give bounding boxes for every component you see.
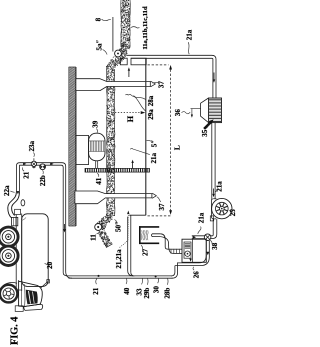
ceiling damper box left	[120, 58, 127, 65]
svg-text:50″: 50″	[114, 221, 122, 232]
bottom return pipe 21	[69, 276, 173, 278]
heat exchanger 35	[201, 98, 222, 123]
svg-text:8: 8	[95, 17, 103, 21]
pump discharge piping	[175, 241, 209, 266]
svg-text:41: 41	[95, 177, 103, 185]
label 21a chamber	[130, 148, 158, 163]
svg-text:21: 21	[92, 287, 100, 295]
right pipe lower section	[212, 123, 215, 200]
junction dot right	[155, 275, 157, 277]
label 5''	[147, 140, 159, 148]
svg-text:36: 36	[174, 109, 182, 117]
flow marker a	[23, 163, 26, 166]
pipe corner to bottom return	[171, 263, 178, 278]
label 50''	[114, 220, 122, 233]
svg-text:23a: 23a	[28, 140, 36, 151]
conveyor band upper section (11a-11d)	[121, 0, 131, 47]
svg-text:28a: 28a	[147, 95, 155, 106]
label 21a pump line	[198, 212, 206, 234]
air inlet arrow	[203, 119, 213, 129]
truck chassis	[15, 209, 22, 291]
label 21 supply	[22, 167, 30, 178]
svg-text:11a,11b,11c,11d: 11a,11b,11c,11d	[142, 6, 149, 50]
label 25	[229, 209, 237, 217]
svg-text:22b: 22b	[39, 175, 47, 186]
dimension line L	[148, 65, 173, 215]
svg-text:29a: 29a	[147, 109, 155, 120]
label 29b	[143, 279, 151, 299]
conveyor band vertical section	[106, 66, 115, 216]
hose to truck tank	[8, 192, 20, 218]
flow arrow down supply	[63, 224, 65, 233]
label 23a	[28, 140, 36, 156]
label 5a	[95, 39, 107, 54]
label 20	[45, 261, 54, 269]
conveyor band bend at top pulley	[106, 44, 130, 68]
tank outlet pipe	[151, 234, 173, 254]
truck tank body 20	[22, 214, 49, 287]
label 22b	[39, 170, 47, 186]
valve 38	[204, 234, 211, 241]
svg-text:26: 26	[192, 271, 200, 279]
label 21 bottom	[92, 279, 100, 295]
front fender	[3, 283, 17, 286]
flow marker b	[50, 163, 53, 166]
ceiling damper box right	[131, 58, 146, 65]
flow marker pump outlet	[189, 259, 192, 262]
svg-text:28b: 28b	[164, 288, 172, 299]
upper hot-air duct nozzle	[76, 79, 155, 91]
label H	[126, 115, 135, 122]
label 41	[95, 173, 103, 184]
top recirculation pipe 21a	[127, 55, 217, 98]
svg-text:40: 40	[123, 287, 131, 295]
label 40	[123, 279, 131, 295]
truck cab	[19, 281, 43, 307]
label L	[172, 145, 181, 150]
truck rear wheel 236.8	[0, 227, 18, 246]
svg-text:37: 37	[158, 81, 166, 89]
svg-text:27: 27	[142, 248, 150, 256]
label 30	[153, 279, 161, 294]
svg-text:5a″: 5a″	[95, 39, 103, 50]
svg-text:21a: 21a	[216, 181, 224, 192]
label 21a fan inlet	[215, 181, 223, 192]
truck rear wheel 255.8	[0, 246, 18, 265]
label 21a top	[186, 29, 194, 54]
conveyor band lower discharge section 50	[96, 214, 113, 248]
hatched wall	[68, 55, 77, 245]
valve 22b	[40, 164, 46, 170]
chamber right wall	[145, 58, 147, 215]
svg-text:L: L	[172, 145, 181, 150]
label 11 pulley	[89, 232, 100, 241]
svg-text:35: 35	[201, 129, 209, 137]
svg-text:29b: 29b	[143, 288, 151, 299]
cab step	[15, 306, 23, 312]
label 35	[201, 124, 210, 137]
label 27	[141, 245, 150, 256]
label 8	[95, 17, 111, 21]
vessel 39	[89, 133, 105, 168]
svg-text:20: 20	[46, 261, 54, 269]
svg-text:21a: 21a	[186, 29, 194, 40]
downcomer duct to return pipe	[128, 215, 135, 276]
svg-text:21a: 21a	[150, 152, 158, 163]
flow marker valve downpipe	[206, 252, 209, 255]
caption FIG. 4	[9, 317, 20, 345]
top pulley 5a	[115, 50, 122, 57]
label 21-21a	[115, 211, 129, 269]
label 22a	[3, 185, 15, 196]
flow marker c	[17, 191, 20, 194]
label 28a	[126, 94, 155, 106]
chamber bottom dashed extension	[148, 215, 171, 217]
svg-text:FIG. 4: FIG. 4	[9, 317, 20, 345]
bottom pulley 11	[95, 224, 102, 231]
label 11a-11d	[131, 6, 149, 50]
lower hot-air duct nozzle	[75, 191, 156, 204]
supply pipe 21 from truck	[16, 163, 72, 279]
label 28b	[164, 279, 172, 299]
svg-text:22a: 22a	[3, 185, 11, 196]
flow arrow down in right pipe	[213, 73, 215, 83]
svg-text:30: 30	[153, 286, 161, 294]
blower fan 25	[210, 198, 232, 220]
perforated grate 41	[85, 168, 150, 174]
flow arrow up chamber	[131, 160, 133, 169]
label 26	[192, 267, 200, 279]
svg-text:11: 11	[89, 234, 97, 241]
cab windshield	[26, 290, 38, 305]
truck front wheel	[0, 285, 17, 303]
flow arrow down right pipe lower	[212, 189, 214, 198]
coupling oval	[21, 200, 25, 206]
water tank 27	[139, 226, 159, 244]
svg-text:21: 21	[22, 171, 30, 179]
side mirror	[41, 280, 50, 288]
fan outlet pipe	[192, 219, 217, 239]
conveyor frame line 8	[112, 17, 114, 52]
svg-text:21a: 21a	[198, 212, 206, 223]
label 39	[92, 120, 100, 133]
svg-text:39: 39	[92, 120, 100, 128]
front bumper	[24, 304, 43, 310]
junction dot left	[98, 275, 100, 277]
plenum box on wall	[76, 135, 89, 164]
label 37 lower	[157, 197, 166, 211]
pump 26 with motor	[182, 239, 206, 262]
svg-text:37: 37	[158, 203, 166, 211]
valve 23a	[31, 158, 36, 168]
label 36	[174, 109, 201, 118]
label 33	[136, 279, 144, 296]
chamber bottom edge	[129, 214, 146, 216]
label 37	[153, 81, 166, 89]
label 38	[210, 240, 219, 249]
svg-text:H: H	[126, 115, 135, 122]
flow arrow up into top pipe	[128, 67, 130, 77]
dashed arrow H	[115, 111, 145, 114]
corrugated hose	[168, 249, 182, 254]
tank coupling port	[12, 217, 18, 225]
label 29a	[134, 96, 155, 120]
flow marker before valve	[193, 236, 196, 239]
svg-text:21,21a: 21,21a	[115, 249, 123, 269]
